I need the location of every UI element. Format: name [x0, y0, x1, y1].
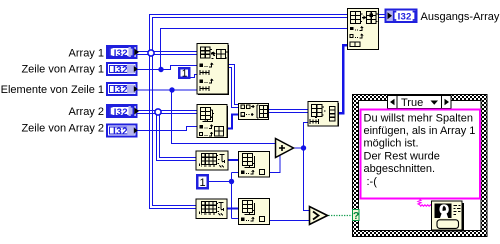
wire Build Array output to Reshape N3: [269, 110, 309, 113]
wire Insert output down to Build Array input1: [229, 65, 239, 108]
pin index row1: [200, 125, 213, 129]
case selector tunnel: [353, 210, 360, 223]
string constant message box: [361, 110, 481, 199]
control terminal Zeile von Array 2 I32: [107, 125, 138, 138]
svg-text:Zeile von Array 2: Zeile von Array 2: [21, 123, 104, 135]
junction Array 1: [148, 50, 154, 56]
wire Array 1 branch up and right to Replace node: [150, 15, 348, 53]
svg-text::-(: :-(: [367, 176, 378, 188]
constant 1a: [179, 68, 189, 80]
node U4 Reshape Array: [308, 102, 339, 127]
pin subarray: [350, 42, 355, 47]
node U3 Build Array: [239, 104, 269, 120]
pin index1: [200, 63, 213, 67]
svg-text:1: 1: [200, 177, 206, 189]
svg-text:I32: I32: [113, 65, 128, 76]
svg-text:Der Rest wurde: Der Rest wurde: [364, 150, 440, 162]
pin dimension size: [310, 119, 319, 124]
pin element out: [260, 217, 265, 222]
wire Reshape output up to Replace node: [339, 45, 348, 113]
node U12 One Button Dialog: [432, 201, 464, 231]
junction Zeile von Array 1: [158, 67, 163, 72]
wire Index N7 output to Greater input: [270, 220, 309, 222]
wire string squiggle to dialog: [418, 200, 433, 207]
node U9 Index Array (sizes of Array 1): [239, 199, 270, 225]
wire Array 1 branch down to Array Size node N5: [150, 53, 197, 209]
junction Elemente von Zeile 1: [169, 87, 174, 92]
wire Index N2 row output to Build Array input2: [228, 115, 239, 129]
wire Replace output to indicator: [379, 15, 385, 18]
control terminal Array 1 [I32]: [108, 47, 140, 59]
node U8 Index Array (sizes of Array 2): [239, 152, 270, 178]
svg-text:I32: I32: [114, 107, 128, 118]
case structure frame: [353, 95, 488, 237]
wire Add output branch up to Reshape dimension input: [304, 123, 309, 149]
svg-text:Zeile von Array 1: Zeile von Array 1: [21, 63, 104, 75]
wire Array Size N5 to Index N7: [228, 208, 239, 210]
svg-text:I32: I32: [113, 126, 128, 137]
wire Index N6 output to Add lower input: [270, 156, 280, 173]
pin index row2 unwired: [200, 132, 213, 136]
pin element out: [260, 170, 265, 175]
control terminal Elemente von Zeile 1 I32: [107, 83, 138, 96]
wire Elemente von Zeile 1: [138, 89, 198, 91]
svg-text:1: 1: [182, 69, 188, 80]
junction constant 1b: [229, 179, 234, 184]
svg-text:einfügen, als in Array 1: einfügen, als in Array 1: [364, 125, 476, 137]
pin array row1: [200, 70, 209, 75]
wire Array 2 2D horizontal pair to Index node N2: [138, 111, 198, 114]
wire Zeile von Array 1: [138, 66, 198, 70]
svg-text:I32: I32: [113, 85, 128, 96]
control terminal Zeile von Array 1 I32: [107, 63, 138, 76]
wire Zeile von Array 2 to Index node N2: [138, 127, 198, 131]
svg-text:Ausgangs-Array: Ausgangs-Array: [421, 11, 500, 23]
wire constant 1a to Insert row2: [191, 75, 198, 78]
node U7 Array Size (Array 1): [196, 199, 227, 219]
svg-text:Du willst mehr Spalten: Du willst mehr Spalten: [364, 112, 473, 124]
node U5 Replace Array Subset: [348, 9, 380, 50]
control terminal Array 2 [I32]: [108, 106, 140, 118]
pin index2: [200, 79, 213, 83]
wire Add output: [294, 147, 304, 149]
svg-text:?: ?: [353, 210, 359, 222]
pin index: [241, 217, 254, 221]
node U10 Add: [276, 139, 294, 158]
svg-text:Array 1: Array 1: [69, 47, 104, 59]
wire constant 1b to Index rows: [209, 173, 239, 219]
svg-text:Elemente von Zeile 1: Elemente von Zeile 1: [1, 84, 104, 96]
svg-text:abgeschnitten.: abgeschnitten.: [364, 163, 436, 175]
wire Array Size N4 to Index N6: [229, 159, 239, 161]
svg-text:Array 2: Array 2: [69, 106, 104, 118]
node U6 Array Size (Array 2): [196, 151, 228, 170]
indicator terminal Ausgangs-Array [I32]: [386, 10, 417, 23]
junction Add output: [301, 145, 306, 150]
pin index: [241, 170, 254, 174]
node U11 Greater: [310, 207, 328, 225]
svg-text:I32: I32: [114, 48, 128, 59]
pin index row2 unwired: [350, 34, 363, 38]
constant 1b: [197, 175, 208, 189]
node U2 Index Array (Array 2): [197, 105, 228, 138]
junction Array 2: [155, 109, 161, 115]
wire Array 1 2D horizontal pair to Insert node: [138, 52, 198, 55]
pin index row: [350, 27, 363, 31]
wire boolean Greater output to case selector (green dotted): [329, 215, 353, 217]
wire Elemente branch down to Add input: [172, 90, 276, 144]
case selector label True: [388, 96, 452, 110]
svg-text:möglich ist.: möglich ist.: [364, 138, 419, 150]
pin array row2: [200, 86, 209, 91]
svg-text:True: True: [401, 97, 423, 109]
node U1 Insert Into Array: [197, 44, 229, 95]
wire Array 2 branch down to Array Size node N4: [157, 112, 197, 161]
svg-text:I32: I32: [398, 12, 412, 23]
wire Zeile von Array 1 branch up to Replace index: [161, 29, 348, 70]
wire Add output branch down to Greater input: [304, 148, 310, 211]
